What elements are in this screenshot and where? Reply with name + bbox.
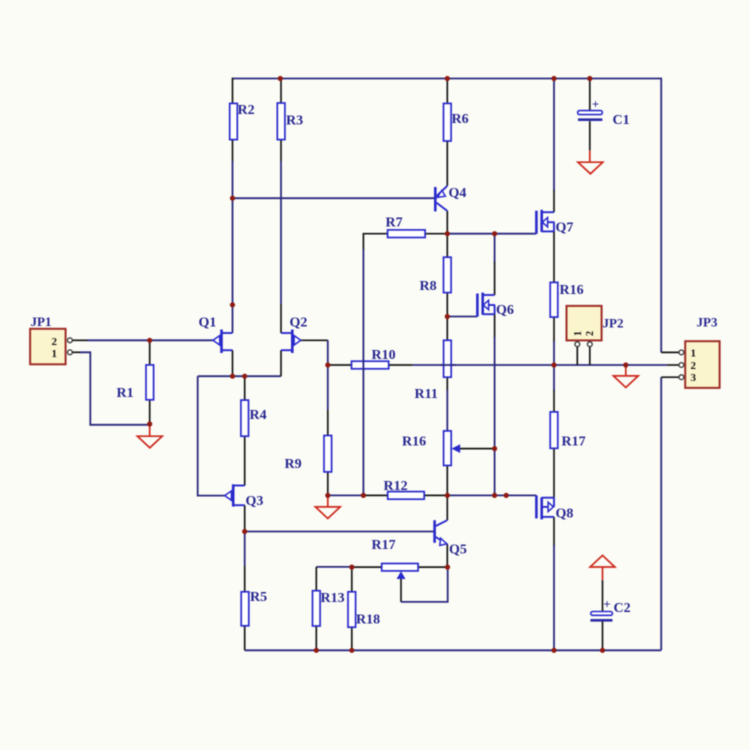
svg-text:Q6: Q6 bbox=[496, 303, 514, 318]
wire Q5 emitter pin bbox=[446, 544, 448, 567]
resistor R8 bbox=[420, 257, 452, 294]
transistor Q7 (NMOS) bbox=[536, 210, 573, 236]
wire R16b pins bbox=[553, 231, 555, 365]
junction Q4 base bbox=[230, 196, 235, 201]
wire Q3 source pin bbox=[244, 505, 246, 531]
svg-text:2: 2 bbox=[52, 336, 58, 348]
resistor R12 bbox=[384, 479, 425, 499]
svg-text:R6: R6 bbox=[452, 112, 469, 127]
svg-text:+: + bbox=[592, 98, 599, 112]
svg-text:JP3: JP3 bbox=[697, 315, 718, 330]
wire JP3 pin1 bbox=[661, 351, 679, 353]
wire Q4 base net bbox=[233, 197, 436, 199]
junction R4 top bbox=[242, 374, 247, 379]
wire Q5 collector pin bbox=[446, 495, 448, 520]
wire right bus upper (rail to JP3 pin1) bbox=[660, 78, 662, 353]
svg-text:1: 1 bbox=[691, 348, 697, 360]
wire output net overlay across R11 body bbox=[440, 364, 456, 366]
wire R6 column bbox=[446, 79, 448, 186]
svg-text:Q8: Q8 bbox=[556, 507, 574, 522]
junction R9 bottom bbox=[325, 493, 330, 498]
wire V- bottom rail bbox=[245, 649, 662, 651]
wire R4 column bbox=[244, 376, 246, 485]
junction rail C2 bbox=[600, 648, 605, 653]
resistor R5 bbox=[241, 590, 267, 626]
transistor Q6 (NMOS) bbox=[477, 293, 513, 318]
power symbol above C2 bbox=[590, 555, 615, 580]
svg-text:R10: R10 bbox=[372, 348, 396, 363]
svg-text:JP1: JP1 bbox=[31, 314, 52, 329]
wire JP1 pin1 loop to R1 bottom bbox=[72, 352, 148, 425]
wire Q8 source to rail bbox=[553, 517, 555, 650]
wire Q1-Q2 source join bbox=[198, 375, 281, 377]
svg-text:3: 3 bbox=[691, 372, 697, 384]
svg-text:R5: R5 bbox=[250, 590, 267, 605]
svg-text:R9: R9 bbox=[285, 457, 302, 472]
wire R5 column bbox=[244, 532, 246, 651]
wire Q6 source line down bbox=[494, 314, 496, 495]
wire R2 column / Q1 drain bbox=[232, 78, 234, 333]
resistor R7 bbox=[386, 216, 426, 238]
junction rail R3 bbox=[278, 76, 283, 81]
wire Q6 drain line bbox=[494, 234, 496, 295]
svg-text:R1: R1 bbox=[117, 386, 134, 401]
wire R17b pins bbox=[553, 365, 555, 498]
svg-text:R13: R13 bbox=[321, 591, 345, 606]
junction rail Q8 bbox=[551, 648, 556, 653]
resistor R11 bbox=[415, 340, 452, 402]
svg-text:R4: R4 bbox=[250, 408, 267, 423]
junction Q6 drain bbox=[492, 231, 497, 236]
svg-text:C1: C1 bbox=[613, 113, 630, 128]
svg-text:R16: R16 bbox=[402, 435, 426, 450]
wire Q2 source pin bbox=[280, 350, 282, 376]
junction rail Q7 bbox=[551, 76, 556, 81]
svg-text:R17: R17 bbox=[562, 435, 586, 450]
junction Q5 emitter bbox=[445, 565, 450, 570]
wire Q3 source to Q5 base bbox=[245, 531, 435, 533]
wire R11 pins bbox=[446, 317, 448, 431]
potentiometer R16 (vertical) bbox=[402, 431, 460, 466]
wire Q2 gate / R9 column bbox=[301, 340, 328, 495]
connector JP2 bbox=[567, 306, 624, 347]
resistor R1 bbox=[117, 365, 154, 401]
junction Q3 source bbox=[242, 529, 247, 534]
resistor R16 (right column) bbox=[550, 282, 583, 317]
resistor R9 bbox=[285, 436, 332, 473]
junction R1 bottom bbox=[147, 421, 152, 426]
junction output ground bbox=[623, 362, 628, 367]
wire R12 bias net bbox=[328, 494, 537, 496]
wire R8 pins bbox=[446, 234, 448, 317]
wire right bus lower (JP3 pin3 to bottom rail) bbox=[660, 377, 662, 650]
transistor Q4 (PNP) bbox=[435, 186, 466, 212]
svg-text:1: 1 bbox=[52, 348, 58, 360]
junction bias net B bbox=[504, 493, 509, 498]
svg-text:R11: R11 bbox=[415, 387, 438, 402]
junction Q1 source bbox=[230, 374, 235, 379]
junction R12 left bbox=[361, 493, 366, 498]
wire V+ top rail bbox=[233, 78, 662, 80]
svg-text:R18: R18 bbox=[356, 613, 380, 628]
resistor R18 bbox=[348, 592, 380, 628]
wire JP1 pin2 to Q1 gate bbox=[72, 339, 213, 341]
junction R12 right bbox=[445, 493, 450, 498]
svg-text:Q5: Q5 bbox=[449, 543, 467, 558]
wire C1 column bbox=[589, 79, 591, 151]
svg-text:R8: R8 bbox=[420, 279, 437, 294]
resistor R13 bbox=[313, 591, 345, 626]
junction Q2 gate bbox=[325, 362, 330, 367]
capacitor C1 bbox=[578, 98, 630, 129]
connector JP3 bbox=[679, 315, 720, 388]
wire R7 left leg down to R12 bbox=[363, 234, 387, 496]
wire Q7 drain to rail bbox=[553, 79, 555, 213]
wire R17 pot pins bbox=[352, 566, 448, 568]
resistor R6 bbox=[444, 103, 469, 141]
junction R8 bottom bbox=[445, 314, 450, 319]
wire R1 pins bbox=[149, 340, 151, 424]
svg-text:R3: R3 bbox=[286, 114, 303, 129]
junction rail R18 bbox=[349, 648, 354, 653]
svg-text:Q4: Q4 bbox=[449, 186, 467, 201]
svg-text:R17: R17 bbox=[372, 538, 396, 553]
junction R16 wiper bbox=[492, 446, 497, 451]
wire Q6 gate line bbox=[447, 316, 477, 318]
svg-text:1: 1 bbox=[573, 331, 584, 336]
junction rail R6 bbox=[445, 76, 450, 81]
svg-text:R2: R2 bbox=[238, 103, 255, 118]
transistor Q5 (NPN) bbox=[435, 520, 467, 557]
svg-text:2: 2 bbox=[691, 360, 697, 372]
potentiometer R17 (horizontal) bbox=[372, 538, 419, 579]
svg-text:2: 2 bbox=[585, 331, 596, 336]
wire left loop to Q3 gate bbox=[198, 376, 225, 495]
junction Q1 drain wire bbox=[230, 302, 235, 307]
wire Q4 collector pin bbox=[446, 211, 448, 234]
svg-text:Q1: Q1 bbox=[199, 316, 217, 331]
transistor Q8 (PMOS) bbox=[536, 495, 573, 521]
wire VAS node to Q7 gate bbox=[447, 233, 536, 235]
svg-text:C2: C2 bbox=[614, 601, 631, 616]
svg-text:Q7: Q7 bbox=[556, 221, 574, 236]
svg-text:R12: R12 bbox=[384, 479, 408, 494]
resistor R2 bbox=[230, 103, 255, 140]
junction VAS node bbox=[445, 231, 450, 236]
junction bias net A bbox=[492, 493, 497, 498]
junction output R16b bbox=[551, 362, 556, 367]
wire R16 pot bottom pin bbox=[446, 466, 448, 496]
resistor R3 bbox=[277, 103, 303, 140]
wire R13 top link bbox=[316, 567, 352, 650]
resistor R4 bbox=[241, 400, 267, 436]
resistor R10 bbox=[352, 348, 396, 369]
junction rail C1 bbox=[587, 76, 592, 81]
wire R16 wiper line bbox=[460, 448, 495, 450]
junction rail R13 bbox=[314, 648, 319, 653]
wire C2 column bbox=[602, 580, 604, 650]
ground below R9 bbox=[315, 495, 340, 518]
wire Q1 source pin bbox=[232, 350, 234, 376]
svg-text:JP2: JP2 bbox=[603, 316, 624, 331]
wire output net bbox=[328, 364, 679, 366]
junction R18 top bbox=[349, 565, 354, 570]
wire R7-R12 leg overlay across R10 body bbox=[362, 360, 364, 371]
wire JP2 pins down bbox=[577, 347, 590, 365]
capacitor C2 bbox=[590, 598, 630, 621]
wire R7 right pin bbox=[425, 233, 447, 235]
svg-text:Q2: Q2 bbox=[290, 316, 308, 331]
transistor Q1 (JFET) bbox=[199, 316, 233, 354]
wire R3 column / Q2 drain bbox=[280, 78, 282, 333]
resistor R17 (right column) bbox=[550, 412, 585, 450]
wire R18 pins bbox=[351, 567, 353, 650]
transistor Q3 (JFET) bbox=[225, 484, 264, 509]
ground below C1 bbox=[578, 150, 603, 173]
svg-text:R7: R7 bbox=[386, 216, 403, 231]
transistor Q2 (JFET) bbox=[281, 316, 307, 354]
svg-text:Q3: Q3 bbox=[246, 494, 264, 509]
ground near JP2 bbox=[613, 365, 638, 388]
svg-text:R16: R16 bbox=[560, 283, 584, 298]
junction JP1 input bbox=[147, 338, 152, 343]
connector JP1 bbox=[30, 314, 72, 364]
wire JP3 pin3 bbox=[661, 376, 679, 378]
svg-text:+: + bbox=[604, 598, 611, 612]
ground below R1 bbox=[137, 424, 162, 448]
wire R17 wiper loop bbox=[401, 567, 448, 602]
